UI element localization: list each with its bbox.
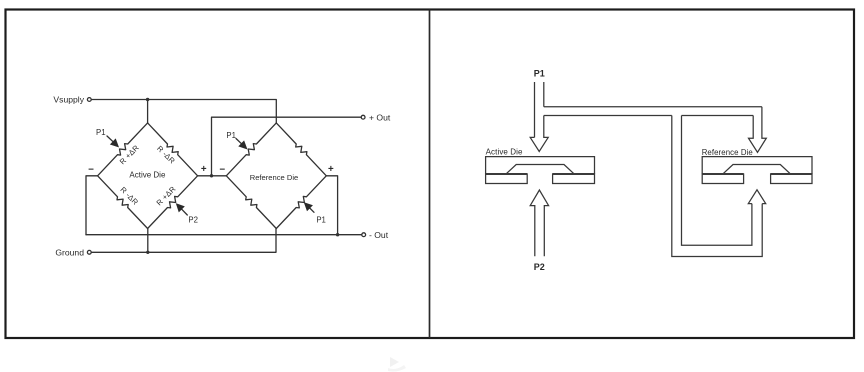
node +Out terminal [361, 115, 365, 119]
svg-text:+ Out: + Out [369, 112, 391, 122]
arrow P1 Active [107, 136, 115, 143]
resistor R-dR Active top-right [148, 123, 198, 176]
wire bridge link Active(+) to Reference(-) [198, 175, 227, 177]
svg-text:Active Die: Active Die [129, 170, 166, 179]
Active Die pedestal right [553, 174, 595, 184]
manifold top wall [544, 106, 762, 108]
svg-text:P1: P1 [226, 131, 236, 140]
Reference Die cavity diaphragm [723, 165, 790, 174]
junction Reference(+) / -Out [336, 233, 339, 236]
resistor Reference top-left [226, 123, 276, 176]
P2 inlet tube and arrow into Active Die bottom [530, 190, 548, 256]
wire -Out rail [86, 234, 362, 236]
wire Reference(+) drop [326, 176, 337, 235]
Active Die cavity diaphragm [506, 165, 574, 174]
svg-text:- Out: - Out [369, 230, 389, 240]
wire Active bottom drop [147, 229, 149, 253]
svg-text:Reference Die: Reference Die [702, 148, 753, 157]
wire Active(-) to -Out rail [86, 176, 98, 235]
svg-text:P1: P1 [534, 69, 545, 79]
Reference Die top bar [702, 157, 812, 174]
svg-text:Reference Die: Reference Die [250, 173, 299, 182]
junction Ground / Active bottom [146, 251, 149, 254]
svg-text:P1: P1 [96, 128, 106, 137]
arrow P1 Reference bottom [308, 207, 314, 213]
Reference Die pedestal left [702, 174, 743, 184]
node -Out terminal [362, 233, 366, 237]
svg-text:+: + [201, 164, 207, 175]
faint cursor mark [390, 357, 399, 367]
arrow P1 into Reference Die [749, 107, 767, 153]
svg-text:Vsupply: Vsupply [53, 95, 84, 105]
resistor Reference bottom-right [276, 176, 326, 229]
arrow P1 into Reference Die bottom [748, 190, 765, 204]
svg-text:+: + [328, 164, 334, 175]
Reference Die pedestal right [771, 174, 812, 184]
resistor Reference bottom-left [226, 176, 276, 229]
svg-text:Active Die: Active Die [486, 148, 523, 157]
svg-text:P2: P2 [188, 215, 198, 224]
resistor R+dR Active top-left [98, 123, 148, 176]
wire Active top drop [147, 100, 149, 124]
junction +Out / bridge midpoint [210, 174, 213, 177]
junction Vsupply / Active top [146, 98, 149, 101]
svg-text:P2: P2 [534, 262, 545, 272]
arrow P2 Active [180, 208, 187, 215]
node Ground terminal [87, 250, 91, 254]
arrow P1 into Active Die [530, 116, 548, 152]
Active Die pedestal left [486, 174, 528, 184]
Active Die top bar [486, 157, 595, 174]
svg-text:P1: P1 [316, 216, 326, 225]
manifold bottom wall [544, 115, 753, 117]
resistor R-dR Active bottom-left [98, 176, 148, 229]
wire Vsupply rail [91, 100, 276, 124]
P1 inlet tube [535, 82, 544, 137]
wire +Out tap [212, 117, 362, 176]
svg-text:Ground: Ground [55, 247, 84, 257]
node Vsupply terminal [87, 98, 91, 102]
resistor R+dR Active bottom-right [148, 176, 198, 229]
bypass tube down and U-turn [672, 116, 762, 257]
arrow P1 Reference top [236, 139, 243, 146]
svg-text:−: − [219, 165, 225, 176]
resistor Reference top-right [276, 123, 326, 176]
wire Ground rail [91, 229, 276, 253]
svg-text:−: − [88, 165, 94, 176]
